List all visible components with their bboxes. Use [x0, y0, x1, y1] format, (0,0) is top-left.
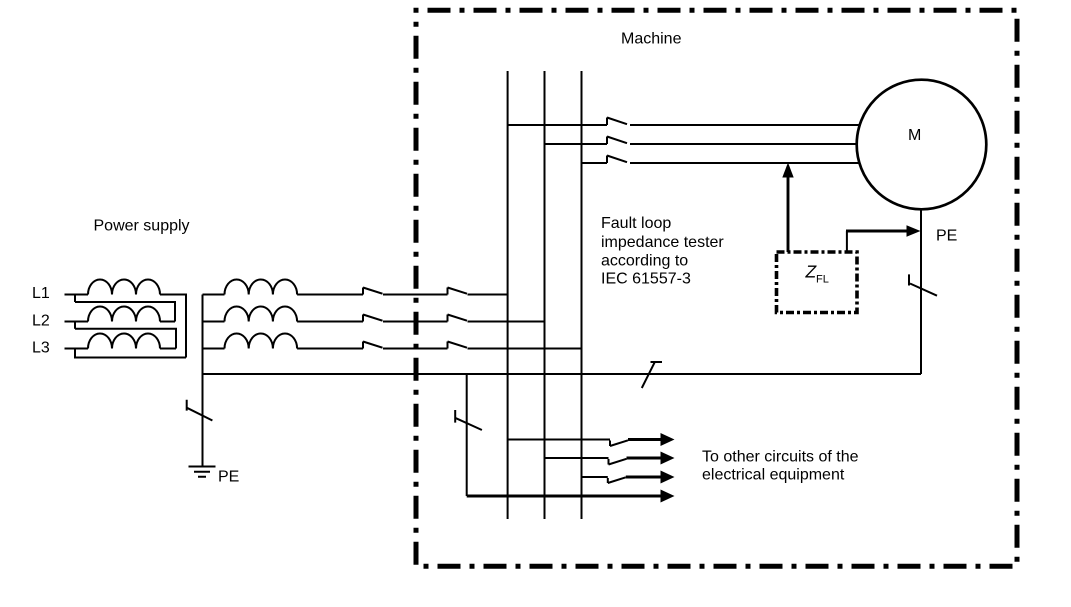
switch on PE run	[642, 362, 662, 388]
switch Q3 pole U	[607, 118, 859, 126]
wire L2 between switches	[383, 321, 448, 323]
switch Q2 pole L1	[448, 288, 468, 295]
switch Q3 pole V	[607, 137, 857, 145]
switch Q3 pole W	[607, 156, 859, 164]
wire motor PE down conductor	[920, 210, 922, 374]
tester probe arrow up to phase W	[787, 176, 790, 252]
wire drop to other-circuits PE	[466, 374, 468, 496]
switch on star-point earth conductor	[187, 400, 213, 421]
node star point vertical (neutral/PE)	[202, 295, 204, 467]
wire L1 primary out to right vertical	[160, 295, 186, 358]
winding T1 secondary phase A	[225, 280, 298, 295]
switch Q1 pole L3	[297, 342, 382, 349]
feeder arrow 1	[628, 438, 662, 441]
switch blade branch 1	[610, 440, 628, 446]
svg-text:PE: PE	[936, 228, 957, 245]
svg-text:impedance tester: impedance tester	[601, 234, 724, 251]
tester probe elbow to PE	[846, 231, 848, 252]
motor M1 circle	[857, 80, 987, 210]
bus 2 vertical	[544, 71, 546, 519]
wire other-circuits branch 3 from bus 3	[582, 476, 608, 478]
svg-text:L2: L2	[32, 313, 50, 330]
wire secondary stub C	[203, 348, 225, 350]
bus 1 vertical	[507, 71, 509, 519]
wire delta link L2-in down	[74, 322, 76, 329]
switch Q2 pole L3	[448, 342, 468, 349]
wire other-circuits branch 1 from bus 1	[508, 439, 610, 441]
wire L1 to bus 1	[468, 294, 508, 296]
wire L3 between switches	[383, 348, 448, 350]
wire L2 to bus 2	[468, 321, 545, 323]
svg-text:Power supply: Power supply	[94, 218, 190, 235]
wire delta link under L1	[75, 302, 175, 322]
wire secondary stub A	[203, 294, 225, 296]
bus 3 vertical	[581, 71, 583, 519]
switch Q1 pole L1	[297, 288, 382, 295]
svg-text:L3: L3	[32, 340, 50, 357]
wire delta bottom link	[74, 357, 186, 359]
svg-text:Machine: Machine	[621, 31, 682, 48]
svg-text:To other circuits of the: To other circuits of the	[702, 449, 859, 466]
feeder arrow 3	[626, 476, 662, 479]
svg-text:Fault loop: Fault loop	[601, 215, 671, 232]
wire other-circuits branch 2 from bus 2	[545, 457, 609, 459]
impedance Z_FL box (dash-dot)	[777, 252, 858, 313]
svg-text:L1: L1	[32, 285, 50, 302]
switch blade branch 2	[609, 459, 627, 465]
wire L3 to bus 3	[468, 348, 582, 350]
svg-text:according to: according to	[601, 253, 688, 270]
wire motor branch W from bus 3	[582, 162, 608, 164]
wire delta link L1-in down	[74, 295, 76, 303]
wire L3 lead-in	[65, 348, 89, 350]
winding T1 secondary phase B	[225, 307, 298, 322]
wire secondary stub B	[203, 321, 225, 323]
switch Q1 pole L2	[297, 315, 382, 322]
switch Q2 pole L2	[448, 315, 468, 322]
svg-text:electrical equipment: electrical equipment	[702, 467, 845, 484]
svg-text:PE: PE	[218, 469, 239, 486]
switch on other-circuits PE drop	[455, 410, 482, 430]
ground PE electrode symbol	[189, 467, 216, 477]
wire delta link L3-in down	[74, 349, 76, 358]
wire L2 primary out	[160, 321, 175, 323]
wire L1 between switches	[383, 294, 448, 296]
wire L3 primary out	[160, 348, 176, 350]
wire motor branch U from bus 1	[508, 124, 607, 126]
winding T1 primary phase A	[88, 280, 160, 295]
switch blade branch 3	[608, 477, 626, 483]
wire motor branch V from bus 2	[545, 143, 608, 145]
svg-text:IEC 61557-3: IEC 61557-3	[601, 271, 691, 288]
wire PE horizontal run	[203, 373, 922, 375]
winding T1 secondary phase C	[225, 334, 298, 349]
feeder arrow 2	[627, 457, 662, 460]
winding T1 primary phase C	[88, 334, 160, 349]
svg-text:M: M	[908, 127, 921, 144]
wire delta link under L2	[75, 329, 176, 349]
machine enclosure border (dash-dot)	[416, 10, 1017, 566]
switch on motor PE conductor	[909, 274, 937, 295]
wire L1 lead-in	[65, 294, 89, 296]
svg-text:FL: FL	[816, 274, 829, 286]
wire L2 lead-in	[65, 321, 89, 323]
winding T1 primary phase B	[88, 307, 160, 322]
feeder arrow 4 PE	[467, 495, 662, 498]
